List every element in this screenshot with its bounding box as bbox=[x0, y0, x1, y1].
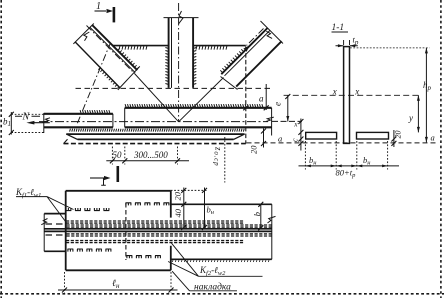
left stub break arrow bbox=[41, 219, 47, 225]
dimension l_n (plate length) bbox=[58, 272, 178, 293]
steep dash-dot axis line at splice bbox=[77, 44, 110, 123]
chord axis break arrow right bbox=[266, 117, 274, 121]
stub hidden weld dashes bbox=[46, 224, 63, 235]
svg-text:a: a bbox=[431, 133, 435, 143]
section mark 1 (bottom) bbox=[90, 166, 118, 185]
small dimensions x and c (left of section) bbox=[298, 119, 303, 151]
left diagonal member bbox=[73, 24, 139, 90]
dimensions b_n, b_n, 80+t_p under section bbox=[299, 141, 400, 170]
weld band B1 (gusset weld, upper) bbox=[66, 221, 244, 223]
right diagonal member bbox=[221, 21, 284, 90]
chord right segment bbox=[125, 108, 272, 136]
svg-text:20: 20 bbox=[249, 145, 259, 154]
svg-text:a: a bbox=[278, 134, 282, 144]
svg-text:300...500: 300...500 bbox=[133, 150, 168, 160]
chord joint line lower bbox=[44, 230, 272, 232]
svg-text:e: e bbox=[273, 102, 283, 106]
svg-text:50: 50 bbox=[113, 150, 123, 160]
svg-text:20: 20 bbox=[173, 191, 183, 200]
chord axis break arrow left bbox=[42, 118, 50, 122]
weld band B bbox=[67, 225, 272, 227]
cover plate rectangle (plan) bbox=[66, 191, 171, 270]
axis line from node to right diagonal bbox=[179, 78, 224, 122]
gusset hidden right edge (dashed) bbox=[245, 47, 247, 144]
right diagonal break squiggle bbox=[266, 31, 272, 38]
dimension 50 and 300...500 bbox=[106, 147, 189, 165]
gusset plate top edge bbox=[113, 45, 246, 47]
svg-text:y: y bbox=[408, 113, 413, 123]
x-x axis bbox=[284, 94, 419, 96]
weld ticks post left bbox=[165, 48, 168, 85]
left diagonal break squiggle bbox=[84, 32, 89, 41]
chord axis extension to section bbox=[272, 120, 302, 122]
svg-text:20: 20 bbox=[394, 131, 403, 139]
weld tick texture under right stub bottom edge bbox=[172, 260, 269, 262]
post centerline bbox=[178, 3, 180, 122]
dimension y bbox=[417, 95, 420, 132]
weld band C bbox=[67, 234, 272, 236]
dimension a (top, gusset edge to chord break) bbox=[243, 84, 268, 110]
weld dash row under chord (nakladka weld) bbox=[70, 129, 245, 132]
svg-text:1: 1 bbox=[96, 1, 101, 12]
hidden chord end under plate (dashed) bbox=[125, 203, 127, 260]
section chord plates (horizontal) bbox=[306, 132, 337, 139]
left diagonal axis (dash-dot) bbox=[87, 26, 135, 74]
svg-text:x: x bbox=[332, 86, 337, 96]
force arrow N bbox=[33, 122, 50, 124]
weld ticks along left diagonal upper edge bbox=[118, 48, 139, 69]
cover plate (nakladka) side view bbox=[66, 134, 244, 139]
weld ticks along left diagonal lower edge bbox=[98, 68, 119, 89]
vertical post member bbox=[169, 18, 194, 88]
right diagonal axis (dash-dot) with arrowhead bbox=[247, 29, 264, 46]
weld dash row D (lower left) bbox=[68, 249, 112, 252]
dimension e (x-x axis to chord axis) bbox=[285, 94, 290, 122]
weld ticks above chord left segment bbox=[80, 110, 110, 113]
chord left stub (plan) bbox=[44, 214, 65, 252]
svg-text:x: x bbox=[354, 86, 359, 96]
hidden chord bottom dashed line with labels a bbox=[247, 142, 438, 144]
section gusset plate (vertical) bbox=[344, 47, 350, 144]
weld ticks above chord right segment bbox=[125, 104, 263, 107]
svg-text:N: N bbox=[22, 112, 31, 123]
svg-text:b: b bbox=[252, 212, 262, 216]
svg-text:x: x bbox=[293, 120, 298, 129]
svg-text:a: a bbox=[259, 94, 264, 104]
chord centreline (dash-dot) bbox=[39, 121, 268, 123]
weld ticks post right bbox=[193, 48, 196, 85]
plan dimension b (right stub half width) bbox=[258, 202, 263, 231]
post top break line bbox=[164, 17, 199, 19]
dimension h_p bbox=[425, 48, 428, 142]
gusset hidden bottom edge (dashed) bbox=[64, 143, 246, 145]
weld band C1 (gusset weld, lower) bbox=[66, 241, 244, 243]
dimension 20 (gusset below chord) bbox=[261, 129, 266, 148]
section mark 1 (top) bbox=[95, 1, 114, 22]
dimension 20 (section, plate offset) bbox=[391, 130, 396, 147]
plan dimensions 20 / 40 / b_n bbox=[171, 188, 208, 231]
chord left segment bbox=[44, 113, 113, 133]
chord right stub (plan) bbox=[171, 204, 272, 259]
dimension b1 (left) bbox=[9, 112, 44, 135]
weld dash row E (lower right) bbox=[127, 256, 161, 259]
weld dash row A (upper, inside plate) bbox=[66, 208, 110, 211]
weld ticks along right diagonal lower edge bbox=[220, 49, 243, 72]
svg-text:40: 40 bbox=[173, 208, 183, 217]
post break squiggle bbox=[179, 11, 184, 24]
weld ticks under gusset edge bbox=[119, 46, 227, 50]
long dashed line through node bbox=[76, 87, 271, 89]
h_p top extension line bbox=[350, 47, 430, 49]
axis line from node to left diagonal bbox=[135, 74, 179, 122]
svg-text:c: c bbox=[291, 138, 300, 142]
gusset hidden bottom left chamfer bbox=[64, 139, 68, 143]
right stub break arrow bbox=[268, 216, 276, 223]
vertical text z_o.cp with extension line bbox=[224, 137, 226, 183]
dimension t_p bbox=[336, 40, 358, 47]
chord joint line upper bbox=[44, 228, 272, 230]
